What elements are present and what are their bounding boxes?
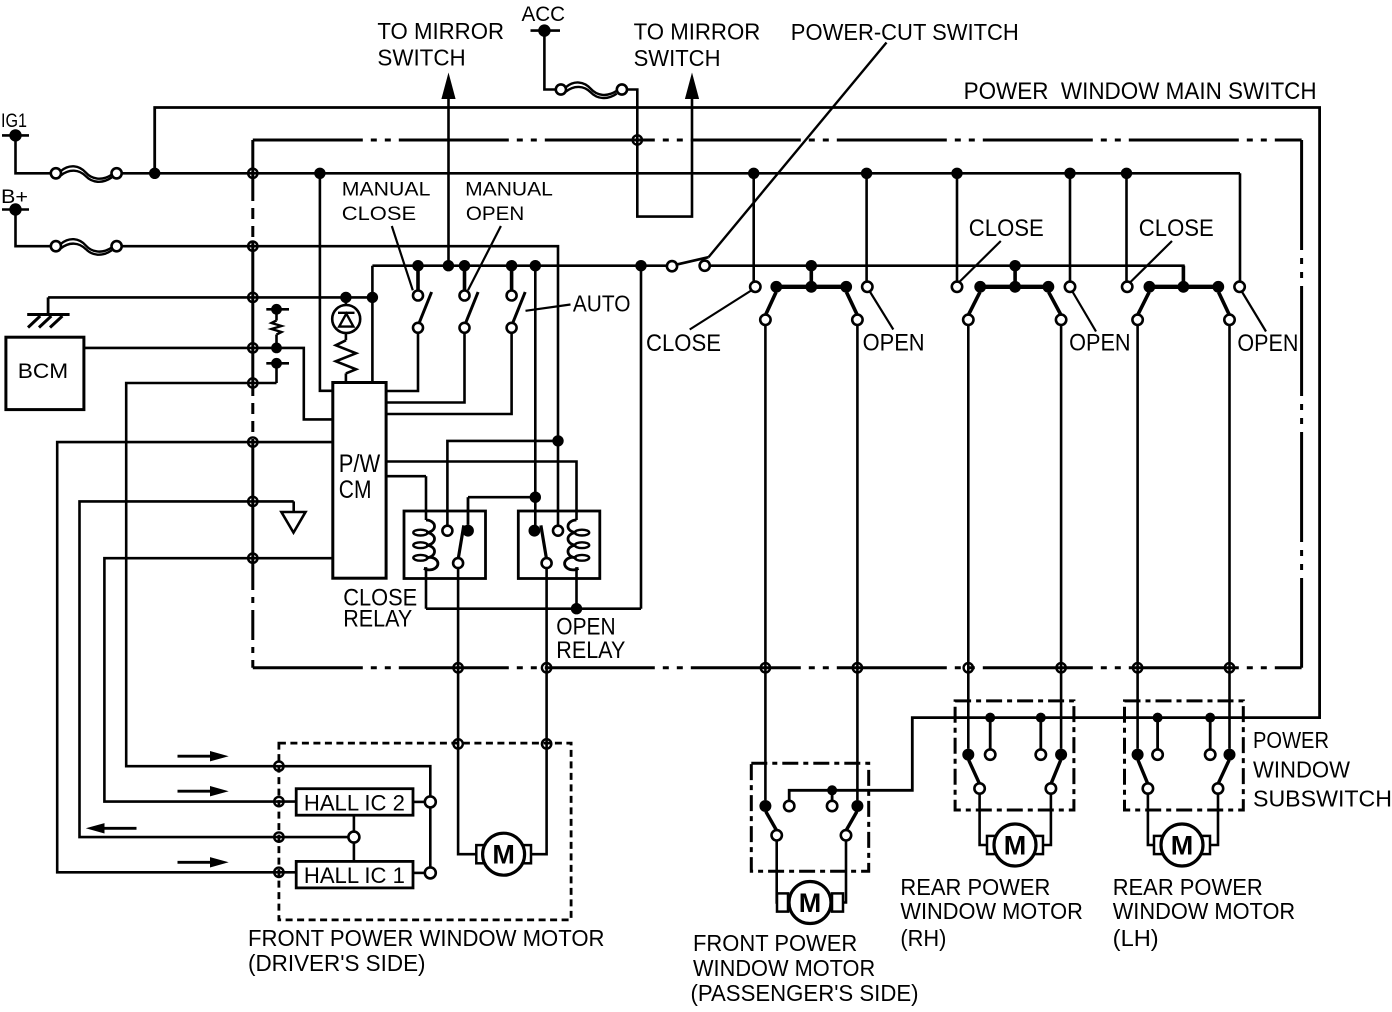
svg-text:OPEN: OPEN (1237, 330, 1298, 357)
node hall1 output (413, 872, 425, 875)
arrow to mirror switch right (685, 73, 699, 100)
node IG1 terminal (2, 134, 29, 137)
wire IG1 to PWCM (320, 173, 333, 390)
fuse B+ left pin (51, 241, 61, 251)
wire label pointer open3 (1242, 292, 1266, 332)
box power window main switch bottom (253, 666, 1302, 669)
svg-text:CLOSE: CLOSE (646, 330, 721, 357)
wire rocker1 close output (764, 325, 767, 800)
svg-text:RELAY: RELAY (556, 637, 625, 664)
wire power-cut arm and label pointer (676, 257, 709, 265)
wire coil return bottom (426, 607, 641, 610)
svg-text:M: M (1004, 831, 1027, 861)
LED indicator D1 (345, 297, 348, 305)
fuse ACC right pin (617, 84, 627, 94)
resistor R2 (336, 340, 356, 373)
fuse B+ right pin (112, 241, 122, 251)
wire B+ bus (122, 246, 558, 526)
svg-text:MANUAL: MANUAL (465, 180, 553, 201)
switch POWER-CUT (667, 261, 677, 271)
wire rocker3 close output (1136, 325, 1139, 749)
wire LH motor right (1210, 794, 1218, 845)
arrow to mirror switch left (441, 73, 455, 100)
motor front passenger M (777, 893, 788, 911)
node junction mirror arrow (443, 260, 454, 271)
fuse B+ element (61, 239, 112, 251)
svg-text:FRONT POWER: FRONT POWER (693, 930, 857, 956)
wire IG1 drop to close contact 2 (956, 173, 959, 281)
fuse IG1 left pin (51, 168, 61, 178)
node pin bottom bus pass open (853, 663, 862, 672)
arrow signal in 1 (178, 755, 212, 758)
wire IG1 terminal to fuse (16, 135, 51, 173)
node pin driver box hall B (274, 797, 283, 806)
node junction common-ground wire (367, 292, 378, 303)
motor rear LH M (1154, 836, 1165, 854)
svg-text:POWER: POWER (1253, 727, 1329, 753)
wire manual switch bus (372, 264, 667, 267)
node hall common pin (348, 832, 359, 843)
svg-text:WINDOW: WINDOW (1253, 757, 1350, 783)
svg-text:(LH): (LH) (1113, 925, 1159, 951)
node pin bottom bus lh open (1225, 663, 1234, 672)
wire RH motor right (1043, 794, 1051, 845)
switch RH subswitch contacts (985, 713, 995, 723)
motor rear RH M (987, 836, 998, 854)
node pin bottom bus close relay out (453, 663, 462, 672)
node pin driver box hall out (274, 832, 283, 841)
wire close bus (710, 266, 1184, 282)
svg-text:(PASSENGER'S SIDE): (PASSENGER'S SIDE) (691, 980, 919, 1006)
wire label pointer manual open (468, 226, 501, 290)
wire passenger motor left (775, 841, 778, 903)
svg-text:POWER WINDOW MAIN SWITCH: POWER WINDOW MAIN SWITCH (964, 78, 1317, 105)
svg-text:CLOSE: CLOSE (342, 204, 416, 225)
svg-text:WINDOW MOTOR: WINDOW MOTOR (900, 898, 1083, 924)
node pin left box hall B (248, 554, 257, 563)
wire BCM output (84, 348, 333, 420)
node junction open coil return (571, 603, 582, 614)
wire hall power line (57, 442, 333, 872)
arrow signal out 3 (104, 827, 137, 830)
switch AUTO (506, 260, 517, 271)
wire label pointer close2 (959, 241, 1001, 282)
node pin left box hall power (248, 437, 257, 446)
svg-text:TO MIRROR: TO MIRROR (377, 18, 504, 44)
node pin left box B+ (248, 242, 257, 251)
node pin left box IG1 (248, 169, 257, 178)
wire hall2 stub (279, 800, 296, 803)
relay OPEN contacts (529, 525, 541, 537)
node pin left box ground (248, 293, 257, 302)
node pin left box spare (248, 378, 257, 387)
svg-text:M: M (492, 840, 515, 870)
switch front passenger window rocker (806, 260, 817, 271)
ground signal triangle (292, 501, 295, 512)
fuse ACC left pin (556, 84, 566, 94)
wire IG1 drop to close contact 3 (1125, 173, 1128, 281)
svg-text:CLOSE: CLOSE (969, 215, 1044, 242)
wire IG1 bus (122, 172, 1240, 175)
svg-text:CM: CM (339, 476, 372, 504)
svg-text:REAR POWER: REAR POWER (900, 874, 1050, 900)
svg-text:OPEN: OPEN (1069, 330, 1131, 357)
node junction spare1-BCM wire (271, 343, 282, 354)
wire spare terminal 2 down (275, 363, 278, 383)
svg-text:SWITCH: SWITCH (377, 45, 465, 71)
switch rear RH window rocker (1009, 260, 1020, 271)
svg-text:WINDOW MOTOR: WINDOW MOTOR (1113, 898, 1296, 924)
svg-text:HALL IC 2: HALL IC 2 (304, 790, 405, 815)
node pin driver box close feed (453, 739, 462, 748)
svg-text:AUTO: AUTO (573, 291, 631, 317)
arrow signal in 2 (178, 790, 212, 793)
node spare terminal 1 (266, 308, 289, 311)
svg-text:RELAY: RELAY (343, 606, 412, 633)
wire rocker1 open output (856, 325, 859, 800)
box front driver motor (279, 743, 571, 920)
box close relay (404, 511, 486, 579)
box rear RH subswitch (955, 701, 1074, 810)
wire hall sensor line A (126, 383, 279, 766)
box rear LH subswitch (1125, 701, 1244, 810)
wire RH motor left (980, 794, 988, 845)
box power window main switch top (253, 139, 1302, 142)
resistor R1 (275, 309, 278, 320)
wire close relay output (458, 568, 476, 854)
wire hall sensor line B (104, 558, 332, 801)
box HALL IC 2 (296, 789, 413, 816)
switch MANUAL OPEN (459, 260, 470, 271)
node junction B+ relay feed (552, 435, 563, 446)
box front passenger motor switch (751, 763, 868, 871)
box P/W CM (333, 383, 386, 579)
svg-text:P/W: P/W (339, 450, 381, 478)
wire label pointer open2 (1072, 292, 1096, 332)
box HALL IC 1 (296, 861, 413, 888)
node pin driver box open feed (542, 739, 551, 748)
motor front driver M (476, 845, 487, 863)
switch passenger reversing contacts (759, 800, 771, 812)
wire IG1 drop to open contact 2 (1069, 173, 1072, 281)
wire label pointer manual close (392, 226, 413, 290)
wire IG1 drop to close contact 1 (752, 173, 755, 281)
ground chassis (47, 297, 50, 314)
node ACC terminal (531, 29, 561, 32)
svg-text:SUBSWITCH: SUBSWITCH (1253, 786, 1392, 812)
wire label pointer open1 (870, 292, 894, 330)
wire coil return (640, 266, 643, 609)
node pin driver box hall A (274, 762, 283, 771)
wire open relay output (531, 568, 546, 854)
wire rocker2 close output (967, 325, 970, 749)
fuse IG1 element (61, 166, 112, 178)
node junction LED top (340, 292, 351, 303)
svg-text:(RH): (RH) (900, 925, 946, 951)
relay OPEN coil (386, 462, 576, 521)
node pin left box hall out (248, 497, 257, 506)
wire hall output line (80, 501, 294, 837)
wire power feed outer loop (155, 108, 1320, 801)
wire rocker2 open output (1060, 325, 1063, 749)
arrow signal in 4 (178, 861, 212, 864)
box power window main switch left (251, 140, 254, 190)
box open relay (518, 511, 600, 579)
node pin bottom bus lh close (1133, 663, 1142, 672)
wire close relay fixed contact to B+ (447, 441, 558, 526)
svg-text:MANUAL: MANUAL (342, 180, 431, 201)
wire hall1 stub (279, 871, 296, 874)
svg-text:POWER-CUT SWITCH: POWER-CUT SWITCH (791, 19, 1019, 45)
svg-text:CLOSE: CLOSE (1139, 215, 1214, 242)
node spare terminal 2 (266, 362, 289, 365)
svg-text:(DRIVER'S SIDE): (DRIVER'S SIDE) (248, 950, 426, 976)
node pin top box ACC line (633, 135, 642, 144)
svg-text:FRONT POWER WINDOW MOTOR: FRONT POWER WINDOW MOTOR (248, 925, 605, 951)
switch LH subswitch contacts (1153, 713, 1163, 723)
node pin bottom bus rh close (964, 663, 973, 672)
wire B+ terminal to fuse (16, 210, 51, 247)
svg-text:REAR POWER: REAR POWER (1113, 874, 1263, 900)
switch MANUAL CLOSE (412, 260, 423, 271)
wire hall2 top link (279, 766, 430, 796)
wire label pointer close1 (690, 291, 752, 330)
svg-text:WINDOW MOTOR: WINDOW MOTOR (693, 955, 875, 981)
wire close coil feed (386, 475, 426, 478)
node junction IG1-PWCM (314, 168, 325, 179)
wire passenger motor right (843, 841, 846, 903)
svg-text:OPEN: OPEN (466, 204, 524, 225)
wire switch common drop (371, 266, 374, 383)
svg-text:BCM: BCM (18, 360, 68, 383)
node B+ terminal (2, 208, 29, 211)
node pin bottom bus open relay out (542, 663, 551, 672)
svg-text:M: M (799, 888, 822, 918)
box power window main switch right (1300, 140, 1303, 668)
svg-text:HALL IC 1: HALL IC 1 (304, 863, 405, 888)
fuse IG1 right pin (112, 168, 122, 178)
svg-text:ACC: ACC (522, 3, 566, 26)
node pin bottom bus pass close (761, 663, 770, 672)
box BCM (6, 337, 84, 409)
wire label pointer auto (526, 305, 571, 311)
node junction coil return bus (635, 260, 646, 271)
node junction relay commons (530, 492, 541, 503)
wire ACC fuse to mirror arrow (627, 90, 692, 217)
wire ground to switch common (48, 296, 372, 299)
svg-text:B+: B+ (1, 186, 28, 208)
wire IG1 drop to open contact 3 (1239, 173, 1242, 281)
node pin driver box hall power (274, 868, 283, 877)
wire relay common (534, 266, 537, 526)
svg-text:IG1: IG1 (1, 110, 27, 132)
wire rocker3 open output (1228, 325, 1231, 749)
node junction IG1 outer feed (149, 168, 160, 179)
svg-text:M: M (1171, 831, 1194, 861)
wire LH motor left (1148, 794, 1155, 845)
wire IG1 drop to open contact 1 (865, 173, 868, 281)
svg-text:OPEN: OPEN (863, 330, 925, 357)
wire relay commons tie (468, 496, 535, 499)
node junction relay common bus (530, 260, 541, 271)
wire ACC to fuse (544, 31, 556, 90)
node pin left box BCM (248, 343, 257, 352)
node pin bottom bus rh open (1056, 663, 1065, 672)
wire hall common (279, 836, 349, 839)
fuse ACC element (566, 82, 617, 94)
relay CLOSE contacts (442, 526, 452, 536)
relay CLOSE coil (425, 476, 428, 520)
wire label pointer close3 (1131, 241, 1173, 282)
svg-text:TO MIRROR: TO MIRROR (634, 19, 761, 45)
svg-text:SWITCH: SWITCH (634, 45, 721, 71)
node hall2 output (413, 801, 425, 804)
switch rear LH window rocker (1182, 266, 1186, 287)
